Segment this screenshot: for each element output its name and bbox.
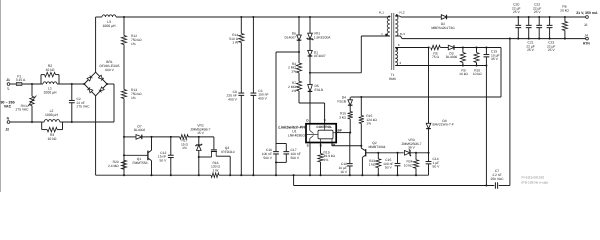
svg-text:MBRS4201T3G: MBRS4201T3G	[431, 26, 455, 30]
svg-text:MMBT3904: MMBT3904	[368, 145, 385, 149]
svg-text:2.4 MΩ: 2.4 MΩ	[108, 164, 119, 168]
svg-text:3 kΩ: 3 kΩ	[339, 115, 346, 119]
svg-text:10 kΩ: 10 kΩ	[459, 72, 468, 76]
svg-text:20 kΩ: 20 kΩ	[560, 8, 569, 12]
svg-text:35 V: 35 V	[491, 57, 499, 61]
svg-text:IRFD310: IRFD310	[221, 150, 234, 154]
svg-text:VAC: VAC	[4, 105, 12, 109]
svg-text:1%: 1%	[131, 42, 136, 46]
svg-text:10 kΩ: 10 kΩ	[404, 163, 413, 167]
svg-text:FL1: FL1	[379, 10, 385, 14]
svg-text:FL3: FL3	[400, 32, 406, 36]
svg-text:1.5KE200A: 1.5KE200A	[314, 35, 331, 39]
svg-text:25 V: 25 V	[513, 10, 521, 14]
svg-text:1000 µH: 1000 µH	[103, 24, 116, 28]
svg-text:25 V: 25 V	[534, 10, 542, 14]
svg-text:RTN: RTN	[583, 41, 590, 45]
svg-text:BAV21WS-7-F: BAV21WS-7-F	[433, 123, 454, 127]
svg-text:400 V: 400 V	[228, 97, 237, 101]
svg-text:J2: J2	[5, 127, 9, 131]
svg-text:75 Ω: 75 Ω	[432, 55, 440, 59]
svg-text:10 kΩ: 10 kΩ	[46, 68, 55, 72]
svg-text:25 V: 25 V	[527, 48, 535, 52]
svg-text:1%: 1%	[291, 69, 296, 73]
svg-text:1 kΩ: 1 kΩ	[369, 163, 376, 167]
svg-text:UF4007: UF4007	[314, 54, 326, 58]
svg-text:S: S	[307, 143, 309, 147]
svg-text:250 VAC: 250 VAC	[491, 177, 505, 181]
svg-text:50 V: 50 V	[433, 165, 441, 169]
svg-text:ES1D: ES1D	[315, 88, 324, 92]
svg-text:RS1B: RS1B	[337, 99, 346, 103]
svg-text:600 V: 600 V	[105, 68, 114, 72]
svg-text:1%: 1%	[324, 158, 329, 162]
svg-text:275 VAC: 275 VAC	[16, 108, 30, 112]
svg-text:1%: 1%	[131, 96, 136, 100]
svg-text:FL2: FL2	[399, 10, 405, 14]
svg-text:500 V: 500 V	[291, 156, 300, 160]
svg-text:PI-6115-091310: PI-6115-091310	[522, 176, 545, 180]
svg-text:DL4002: DL4002	[134, 128, 146, 132]
svg-text:50 V: 50 V	[160, 159, 168, 163]
svg-text:15 V: 15 V	[197, 131, 205, 135]
svg-text:400 V: 400 V	[258, 96, 267, 100]
svg-text:39 V: 39 V	[408, 146, 416, 150]
svg-text:(PD-195 No e-cap): (PD-195 No e-cap)	[522, 180, 549, 184]
svg-text:J1: J1	[6, 78, 10, 82]
svg-text:DL4007: DL4007	[284, 35, 296, 39]
svg-text:25 V: 25 V	[548, 48, 556, 52]
svg-text:500 V: 500 V	[263, 156, 272, 160]
svg-text:16 V: 16 V	[340, 170, 348, 174]
svg-text:L: L	[7, 86, 9, 90]
svg-text:1000 µH: 1000 µH	[44, 90, 57, 94]
svg-text:10 kΩ: 10 kΩ	[473, 72, 482, 76]
svg-text:1%: 1%	[182, 146, 187, 150]
svg-text:FMMT558: FMMT558	[132, 161, 147, 165]
svg-text:1000 µH: 1000 µH	[45, 113, 58, 117]
svg-text:1 W: 1 W	[232, 41, 239, 45]
svg-text:BP: BP	[338, 128, 342, 132]
svg-text:3.15 A: 3.15 A	[16, 78, 26, 82]
svg-text:LNK403EG: LNK403EG	[288, 133, 306, 137]
svg-text:1%: 1%	[291, 89, 296, 93]
svg-text:10 kΩ: 10 kΩ	[48, 137, 57, 141]
svg-text:275 VAC: 275 VAC	[77, 105, 91, 109]
svg-text:DL4936: DL4936	[446, 55, 458, 59]
svg-text:J4: J4	[584, 33, 588, 37]
svg-text:50 V: 50 V	[385, 166, 393, 170]
svg-text:21 V, 350 mA: 21 V, 350 mA	[576, 11, 598, 15]
svg-text:1 W: 1 W	[213, 168, 220, 172]
svg-text:J3: J3	[584, 23, 588, 27]
svg-text:1%: 1%	[366, 122, 371, 126]
svg-text:RM6: RM6	[389, 77, 396, 81]
